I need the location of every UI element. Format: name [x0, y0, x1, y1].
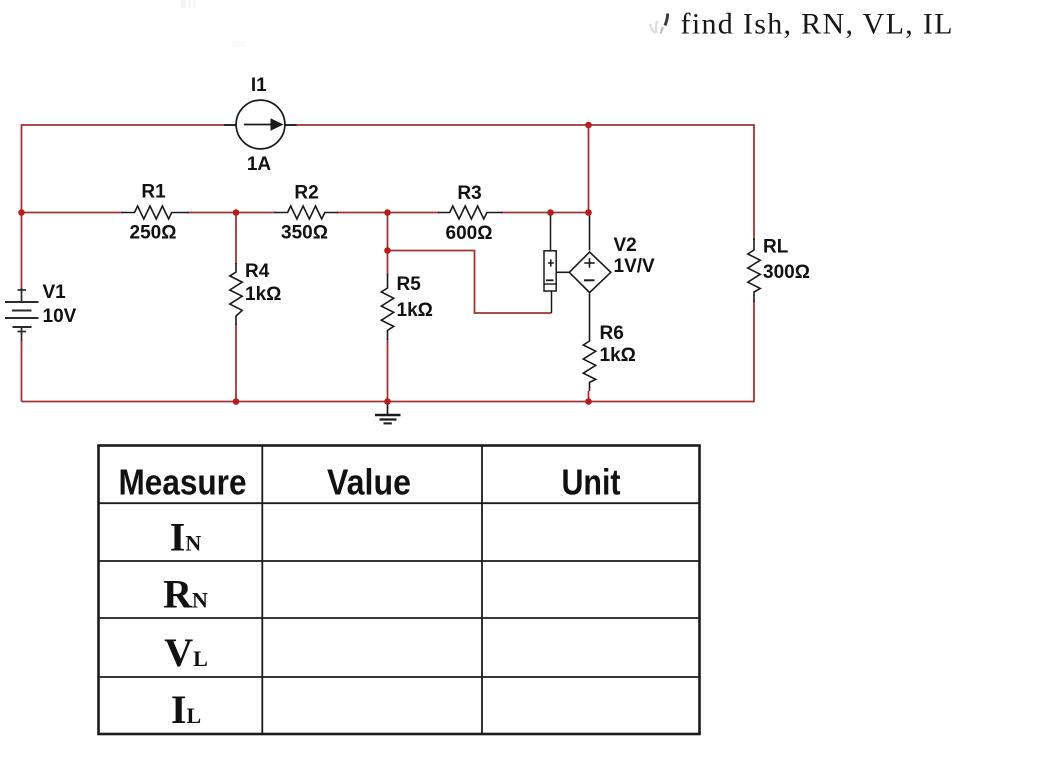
wire bottom rail [22, 401, 755, 403]
svg-text:RN: RN [163, 572, 208, 617]
wire left side lower [21, 340, 23, 402]
resistor R1 [122, 206, 189, 219]
svg-text:R4: R4 [245, 261, 270, 282]
sense rectangle of dependent source [544, 213, 556, 313]
resistor R2 [275, 206, 339, 219]
svg-text:IN: IN [170, 515, 202, 560]
wire R6 bottom stub [588, 391, 590, 402]
svg-text:R6: R6 [600, 323, 624, 344]
node dots [18, 122, 592, 405]
node V2 top [585, 209, 592, 216]
node R4 bottom [233, 398, 240, 405]
svg-text:350Ω: 350Ω [281, 223, 328, 244]
node R6 bottom [585, 398, 592, 405]
battery V1 [5, 288, 39, 341]
resistor R4 [230, 263, 242, 325]
node R2/R5 [384, 209, 391, 216]
svg-text:I1: I1 [251, 75, 267, 96]
svg-text:Measure: Measure [119, 462, 247, 503]
wire mid rail segment R2 to R3 [337, 212, 439, 214]
svg-text:R1: R1 [141, 182, 166, 203]
partial erased glyph before title [650, 14, 668, 34]
wire R4 branch lower [235, 324, 237, 402]
svg-text:find Ish, RN, VL, IL: find Ish, RN, VL, IL [681, 8, 953, 41]
wire R5 branch upper [387, 213, 389, 276]
svg-text:R2: R2 [294, 183, 318, 204]
svg-text:250Ω: 250Ω [130, 223, 177, 244]
svg-text:10V: 10V [43, 306, 77, 327]
resistor RL [748, 238, 760, 302]
svg-text:1V/V: 1V/V [614, 256, 656, 277]
svg-text:300Ω: 300Ω [763, 262, 810, 283]
dependent source V2 diamond [557, 213, 611, 331]
svg-text:1kΩ: 1kΩ [245, 284, 281, 305]
resistor R6 [583, 331, 595, 391]
svg-text:V1: V1 [43, 282, 67, 303]
svg-text:1kΩ: 1kΩ [397, 300, 433, 321]
node V1 top [18, 209, 25, 216]
wire R5 branch lower [387, 339, 389, 402]
wire right side lower [753, 301, 755, 402]
svg-text:1kΩ: 1kΩ [600, 345, 636, 366]
node sense top [547, 209, 554, 216]
table grid [99, 446, 700, 735]
wire mid rail segment R3 to node [501, 212, 589, 214]
wire R4 branch upper [235, 213, 237, 265]
svg-text:RL: RL [763, 237, 789, 258]
wire right side upper [753, 124, 755, 240]
svg-text:IL: IL [171, 687, 201, 732]
faint scan artifact top-left [181, 0, 246, 47]
node controlling tap [384, 247, 391, 254]
svg-text:1A: 1A [247, 154, 272, 175]
resistor R3 [438, 206, 503, 219]
svg-text:Value: Value [327, 462, 411, 503]
svg-text:Unit: Unit [562, 462, 621, 503]
svg-text:R5: R5 [397, 274, 422, 295]
svg-text:VL: VL [164, 630, 208, 675]
node ground [384, 398, 391, 405]
svg-text:600Ω: 600Ω [446, 223, 493, 244]
wire left side upper [21, 124, 23, 289]
current source I1 [224, 100, 297, 149]
node R1/R4 [233, 209, 240, 216]
wire mid rail segment V1 to R1 [22, 212, 124, 214]
wire top rail [22, 124, 755, 126]
svg-text:V2: V2 [614, 235, 637, 256]
ground [375, 402, 401, 424]
wire mid rail segment R1 to R2 [187, 212, 276, 214]
resistor R5 [381, 274, 393, 340]
node top rail [585, 122, 592, 129]
wire controlling loop [388, 251, 552, 314]
wire vertical from top rail to mid rail [588, 125, 590, 213]
svg-text:R3: R3 [457, 183, 481, 204]
